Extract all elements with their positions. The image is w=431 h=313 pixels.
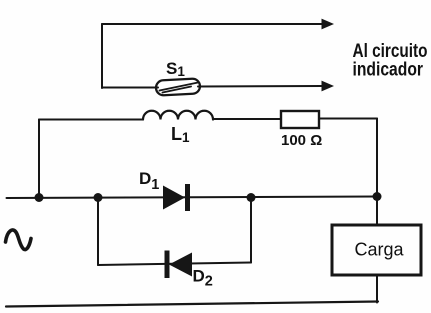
wire: resistor right lead [319,118,377,120]
inductor L1 [143,111,213,120]
svg-text:indicador: indicador [353,59,424,80]
wire: D2 branch left vertical [97,198,99,266]
wire: right vertical from resistor to node [376,119,378,197]
node: junction at load branch [373,192,382,201]
wire: D2 branch bottom horizontal [98,263,251,266]
wire: Carga bottom lead [376,275,378,303]
wire: top horizontal to indicator arrow [102,19,334,30]
AC source symbol [6,230,32,250]
svg-text:Carga: Carga [355,240,405,260]
svg-text:100 Ω: 100 Ω [281,132,322,149]
wire: top-left vertical riser [101,24,103,88]
wire: S1 left lead [102,87,158,89]
wire: L1 right lead to resistor [213,118,281,120]
load box Carga [332,225,421,275]
wire: bottom horizontal (AC bottom rail) [6,302,378,307]
wire: left vertical from L1 lead down to main wire [38,120,40,198]
wire: main horizontal (AC top rail) [7,197,378,199]
svg-text:L1: L1 [171,124,190,145]
node: junction at D2 branch left [94,193,103,202]
wire: L1 left lead [39,119,143,121]
svg-text:D1: D1 [139,169,159,193]
wire: S1 right lead to indicator arrow [198,81,334,92]
switch S1 (reed switch capsule) [156,78,201,95]
node: junction at D2 branch right [247,193,256,202]
svg-text:D2: D2 [193,267,213,290]
node: junction at L1 branch [35,193,44,202]
wire: Carga top lead [376,197,378,226]
svg-text:S1: S1 [166,59,185,79]
diode D1 [163,184,188,211]
diode D2 [167,251,192,279]
wire: D2 branch right vertical [250,197,252,263]
resistor 100 ohm [281,111,319,128]
